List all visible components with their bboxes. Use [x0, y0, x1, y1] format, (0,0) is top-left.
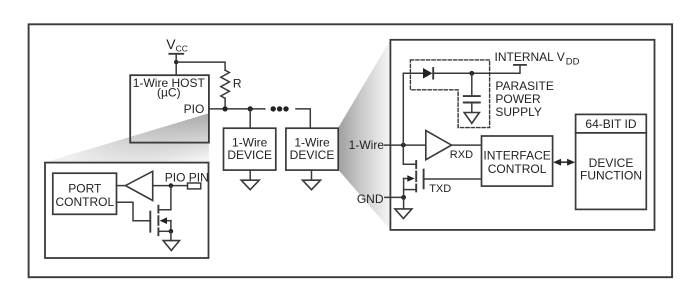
junction 1-Wire node: [401, 143, 406, 148]
wire Q2 body-source to GND node: [403, 179, 405, 198]
svg-text:PARASITE: PARASITE: [495, 79, 553, 93]
wire PIO node to transistor drain: [159, 186, 171, 210]
junction resistor-bus node: [223, 106, 228, 111]
wire device 2 ground stem: [311, 170, 313, 180]
junction Q1 source node: [169, 229, 174, 234]
1-Wire HOST (uC) U1: [130, 75, 209, 142]
svg-text:DEVICE: DEVICE: [227, 148, 272, 162]
power VCC bar symbol: [169, 53, 183, 55]
ground detail box: [163, 241, 179, 251]
svg-text:64-BIT ID: 64-BIT ID: [585, 117, 636, 131]
wire RXD to interface control: [452, 144, 482, 146]
ground device 2: [303, 180, 321, 190]
wire Q1 body to source: [170, 221, 172, 232]
svg-text:PORT: PORT: [68, 182, 102, 196]
svg-text:RXD: RXD: [450, 149, 473, 161]
wire buffer to PIO pin: [153, 185, 188, 187]
wire GND input: [385, 196, 404, 198]
label 64-BIT ID: [576, 132, 647, 134]
wire resistor bottom lead: [224, 98, 226, 109]
wire double arrow interface to device function: [553, 159, 575, 166]
junction capacitor node: [469, 71, 474, 76]
capacitor C1: [464, 73, 480, 112]
transistor Q1 gate bar: [149, 212, 151, 232]
1-Wire DEVICE 2: [286, 128, 338, 170]
DEVICE FUNCTION block with 64-BIT ID: [576, 114, 647, 209]
power VCC label: [166, 36, 188, 53]
wire source to ground: [170, 231, 172, 240]
svg-text:GND: GND: [357, 192, 384, 206]
wire VCC node to resistor top: [176, 62, 225, 70]
svg-text:CC: CC: [176, 44, 188, 54]
bus continuation dots: [271, 106, 289, 111]
label PARASITE POWER SUPPLY: [495, 79, 553, 119]
parasite power supply dashed outline: [410, 60, 489, 128]
svg-text:DD: DD: [566, 56, 580, 67]
junction GND node: [401, 195, 406, 200]
svg-text:POWER: POWER: [495, 92, 541, 106]
wire 1-Wire node up to diode: [403, 73, 423, 145]
ground parasite supply: [464, 113, 479, 124]
transistor Q2 channel: [415, 161, 417, 191]
transistor Q1 channel: [157, 206, 159, 236]
wire diode to internal VDD: [433, 65, 520, 73]
wire 1-Wire node down to Q2 drain: [403, 145, 415, 164]
svg-text:SUPPLY: SUPPLY: [495, 105, 541, 119]
wire device 1 ground stem: [249, 170, 251, 180]
ground device 1: [241, 180, 259, 190]
zoom wedge from host PIO to port-control detail box: [45, 113, 209, 162]
buffer U2 output driver: [125, 171, 152, 200]
wire GND node to ground: [403, 197, 405, 209]
svg-text:CONTROL: CONTROL: [488, 162, 547, 176]
op-amp RXD receive buffer: [426, 131, 452, 160]
pin PIO pad: [188, 183, 201, 189]
svg-text:R: R: [233, 77, 242, 91]
svg-text:FUNCTION: FUNCTION: [580, 168, 642, 182]
transistor Q2 gate bar: [423, 170, 425, 189]
transistor Q1 body arrow: [160, 217, 171, 224]
wire bus to device 1: [249, 109, 251, 128]
wire port control to gate: [117, 202, 151, 220]
wire PIO bus: [209, 108, 265, 110]
port-control detail box: [45, 163, 209, 258]
svg-text:PIO PIN: PIO PIN: [165, 170, 209, 184]
1-Wire slave internal box: [390, 40, 654, 230]
wire TXD gate to interface control: [424, 178, 482, 180]
zoom wedge from 1-Wire device to internal-structure box: [338, 40, 390, 230]
svg-text:PIO: PIO: [184, 102, 205, 116]
transistor Q2 body arrow: [404, 175, 415, 182]
svg-text:DEVICE: DEVICE: [290, 148, 335, 162]
resistor R: [221, 70, 230, 98]
diode D1: [423, 68, 433, 79]
net label INTERNAL VDD: [495, 50, 580, 67]
svg-text:(µC): (µC): [157, 86, 181, 100]
PORT CONTROL block: [53, 173, 117, 214]
wire 1-Wire input: [385, 144, 426, 146]
wire Q2 source: [404, 189, 417, 191]
ground GND symbol: [395, 209, 412, 219]
svg-text:TXD: TXD: [429, 183, 451, 195]
svg-text:INTERFACE: INTERFACE: [483, 149, 550, 163]
power INTERNAL VDD bar symbol: [514, 64, 526, 66]
wire VCC stem to host box: [175, 54, 177, 75]
INTERFACE CONTROL block: [482, 136, 553, 186]
junction device1-bus node: [248, 106, 253, 111]
wire Q1 source: [159, 230, 171, 232]
wire bus to device 2: [296, 109, 310, 128]
svg-text:INTERNAL V: INTERNAL V: [495, 50, 565, 64]
junction PIO pin node: [169, 183, 174, 188]
svg-text:CONTROL: CONTROL: [55, 195, 114, 209]
svg-text:1-Wire: 1-Wire: [349, 138, 385, 152]
wire port control to buffer: [117, 185, 126, 187]
junction VCC node: [174, 60, 178, 64]
1-Wire DEVICE 1: [224, 128, 276, 170]
